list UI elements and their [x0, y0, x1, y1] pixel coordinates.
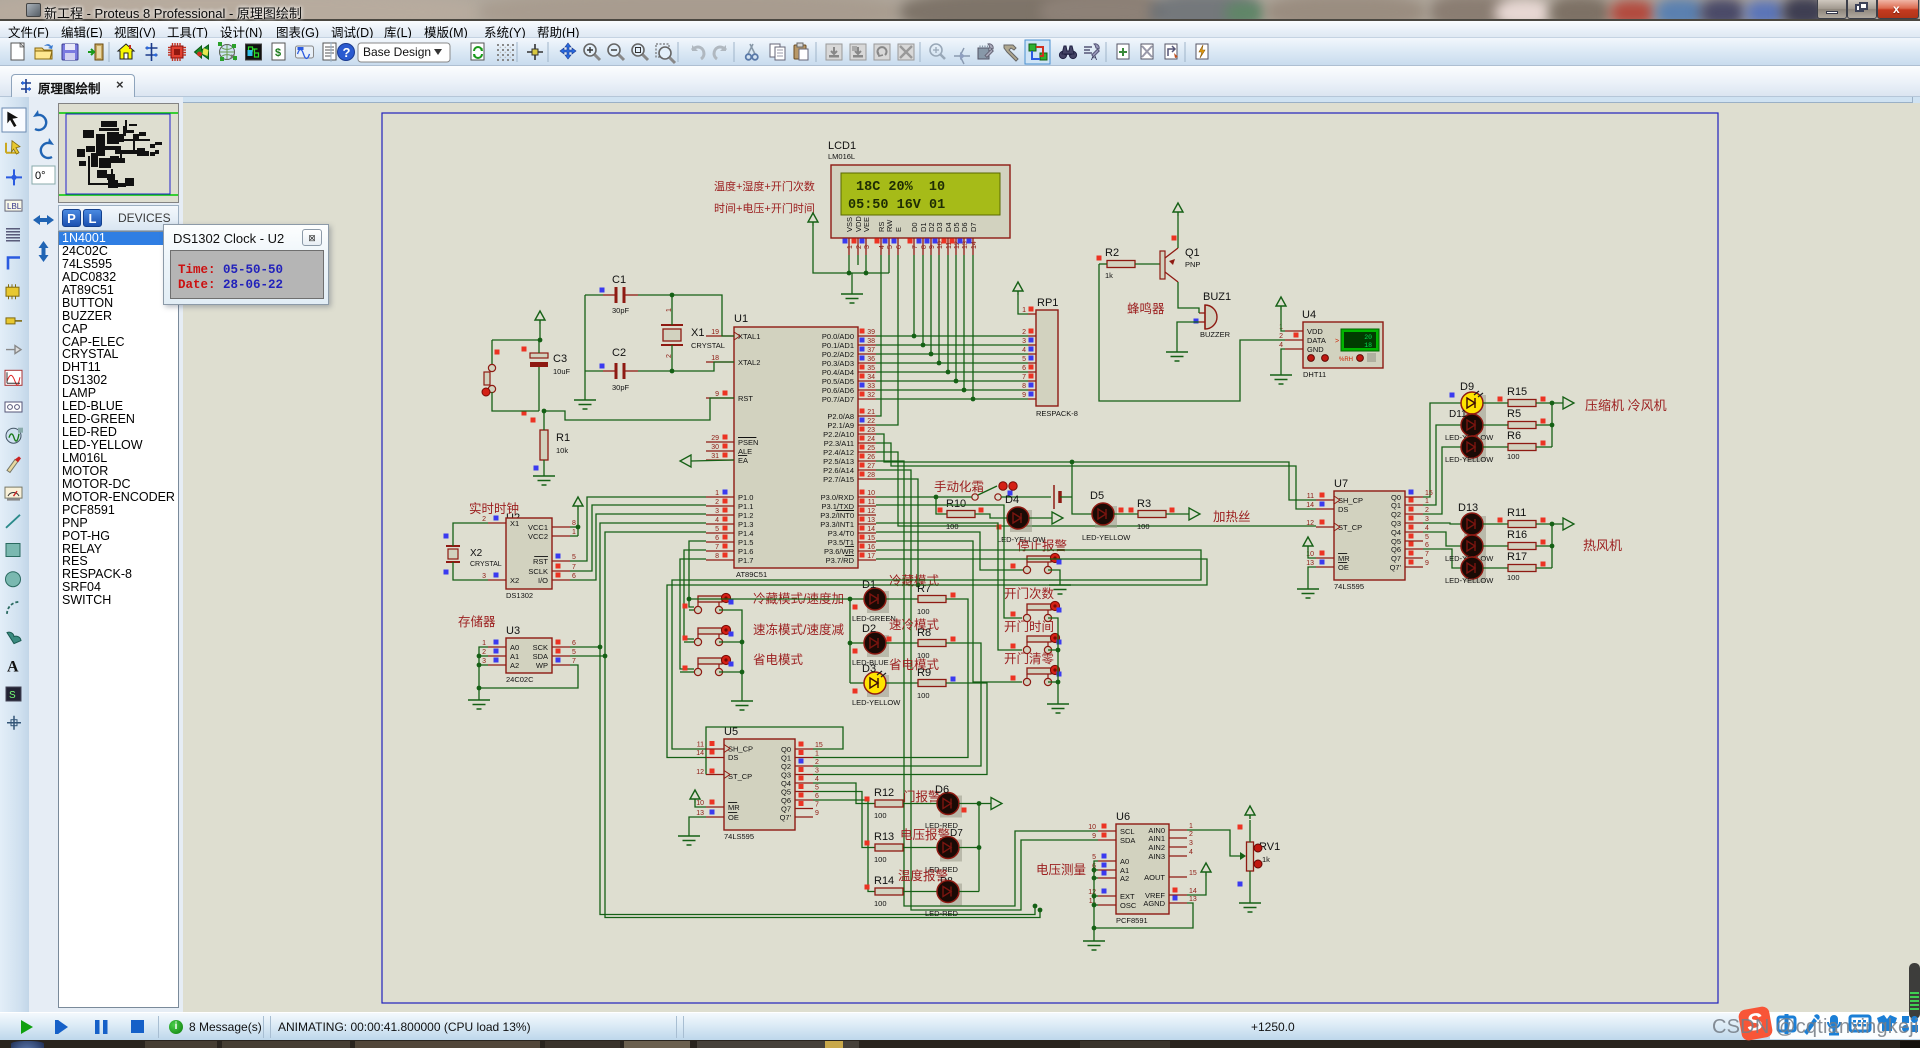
- wire LCD E to U1 pin22: [876, 255, 898, 425]
- svg-text:3: 3: [864, 245, 871, 249]
- svg-text:P1.5: P1.5: [738, 538, 753, 547]
- svg-text:P3.0/RXD: P3.0/RXD: [821, 493, 855, 502]
- svg-text:31: 31: [711, 453, 719, 460]
- svg-text:I/O: I/O: [538, 576, 548, 585]
- svg-text:Q7': Q7': [1390, 563, 1402, 572]
- svg-text:13: 13: [1189, 896, 1197, 903]
- svg-text:100: 100: [874, 855, 887, 864]
- svg-text:D6: D6: [960, 222, 969, 232]
- svg-text:A2: A2: [1120, 874, 1129, 883]
- wire D5 feed from bus: [1070, 460, 1092, 514]
- svg-text:8: 8: [1022, 383, 1026, 390]
- svg-text:P3.4/T0: P3.4/T0: [828, 529, 854, 538]
- svg-text:3: 3: [482, 658, 486, 665]
- svg-text:WP: WP: [536, 661, 548, 670]
- crystal X2: [444, 534, 502, 575]
- label buzzer annotation: [1127, 301, 1165, 316]
- svg-text:压缩机 冷风机: 压缩机 冷风机: [1585, 398, 1667, 413]
- label door annotation 2: [1004, 619, 1054, 634]
- label door annotation 3: [1004, 651, 1055, 666]
- svg-text:D5: D5: [1090, 490, 1104, 502]
- svg-text:AIN3: AIN3: [1148, 852, 1165, 861]
- svg-text:ST_CP: ST_CP: [728, 772, 752, 781]
- power arrow U6 VREF: [1187, 863, 1211, 895]
- svg-text:2: 2: [815, 759, 819, 766]
- svg-text:A: A: [7, 658, 19, 675]
- svg-text:2: 2: [1279, 333, 1283, 340]
- svg-text:P2.6/A14: P2.6/A14: [823, 466, 854, 475]
- svg-text:D7: D7: [969, 222, 978, 232]
- wire Q1 emitter to buzzer: [1178, 282, 1199, 313]
- ground U4: [1270, 375, 1292, 384]
- svg-text:13: 13: [867, 517, 875, 524]
- sensor U4 DHT11: [1279, 309, 1383, 379]
- svg-text:5: 5: [572, 649, 576, 656]
- svg-text:15: 15: [815, 742, 823, 749]
- wire U6 ground stem: [1092, 926, 1097, 941]
- wire LCD RS to U1 pin21: [876, 255, 881, 416]
- wire C1 net: [585, 293, 674, 298]
- svg-text:9: 9: [1092, 833, 1096, 840]
- svg-text:P3.7/RD: P3.7/RD: [826, 556, 855, 565]
- svg-text:3: 3: [1022, 338, 1026, 345]
- svg-text:P3.5/T1: P3.5/T1: [828, 538, 854, 547]
- svg-text:R3: R3: [1137, 498, 1151, 510]
- svg-text:18: 18: [1364, 342, 1372, 349]
- svg-text:U4: U4: [1302, 309, 1316, 321]
- svg-text:2: 2: [1022, 329, 1026, 336]
- svg-text:LED-YELLOW: LED-YELLOW: [1445, 455, 1494, 464]
- wire P1.2 to DS1302 IO: [570, 514, 706, 580]
- svg-text:RW: RW: [885, 219, 894, 232]
- svg-text:27: 27: [867, 463, 875, 470]
- svg-text:2: 2: [715, 499, 719, 506]
- wire D4 to terminal: [1029, 517, 1052, 519]
- svg-text:LBL: LBL: [7, 202, 22, 211]
- svg-text:R8: R8: [917, 627, 931, 639]
- label mode annotation 3: [753, 653, 804, 667]
- svg-text:4: 4: [1022, 347, 1026, 354]
- resistor R9 100: [886, 667, 956, 700]
- wire U5 OE ground: [689, 817, 706, 836]
- svg-text:16: 16: [867, 544, 875, 551]
- wire defrost to R10: [936, 497, 947, 514]
- svg-text:6: 6: [572, 640, 576, 647]
- terminal EA arrow: [680, 455, 734, 467]
- svg-text:C1: C1: [612, 274, 626, 286]
- svg-text:7: 7: [1022, 374, 1026, 381]
- svg-text:24C02C: 24C02C: [506, 675, 534, 684]
- svg-text:DS: DS: [1338, 505, 1348, 514]
- wire R1 to RST: [542, 398, 734, 430]
- svg-text:实时时钟: 实时时钟: [469, 501, 519, 516]
- wire P0.2 bus: [876, 353, 1028, 355]
- svg-text:VSS: VSS: [845, 217, 854, 232]
- svg-text:PCF8591: PCF8591: [1116, 916, 1148, 925]
- svg-text:3: 3: [1425, 516, 1429, 523]
- led D14 LED-YELLOW: [1445, 535, 1494, 563]
- svg-text:5: 5: [1425, 534, 1429, 541]
- svg-text:U5: U5: [724, 726, 738, 738]
- DS1302 popup: [163, 224, 329, 305]
- svg-text:R12: R12: [874, 787, 894, 799]
- svg-text:AGND: AGND: [1143, 899, 1165, 908]
- svg-text:停止报警: 停止报警: [1017, 538, 1067, 553]
- svg-text:18C 20% 10: 18C 20% 10: [856, 180, 945, 195]
- wire mode buttons left: [680, 610, 694, 672]
- svg-text:Q4: Q4: [1391, 528, 1401, 537]
- svg-text:OE: OE: [1338, 563, 1349, 572]
- svg-text:10k: 10k: [556, 446, 568, 455]
- wire door button feed 3: [876, 541, 1022, 682]
- svg-text:6: 6: [1425, 542, 1429, 549]
- svg-text:R6: R6: [1507, 430, 1521, 442]
- svg-text:7: 7: [572, 658, 576, 665]
- svg-text:P0.7/AD7: P0.7/AD7: [822, 395, 854, 404]
- svg-text:EA: EA: [738, 456, 748, 465]
- svg-text:CRYSTAL: CRYSTAL: [691, 341, 725, 350]
- wire R2 left to DATA net: [1099, 264, 1285, 401]
- svg-text:省电模式: 省电模式: [753, 653, 804, 667]
- svg-text:20: 20: [1364, 334, 1372, 341]
- capacitor C3 10uF: [522, 347, 571, 416]
- svg-text:MR: MR: [1338, 554, 1350, 563]
- led D15 LED-YELLOW: [1445, 557, 1494, 585]
- led D13 LED-YELLOW: [1458, 502, 1486, 538]
- wire U7 OE ground: [1308, 567, 1316, 589]
- label mode annotation 1: [753, 591, 844, 606]
- power arrow LCD: [808, 213, 889, 273]
- svg-text:A0: A0: [510, 643, 519, 652]
- label heater annotation: [1213, 510, 1251, 524]
- svg-text:4: 4: [879, 245, 886, 249]
- eeprom U3 24C02C: [482, 625, 576, 684]
- svg-text:1k: 1k: [1262, 855, 1270, 864]
- power arrow U4: [1276, 297, 1286, 331]
- svg-text:2: 2: [856, 245, 863, 249]
- svg-text:4: 4: [715, 517, 719, 524]
- svg-text:速冻模式/速度减: 速冻模式/速度减: [753, 622, 844, 637]
- svg-text:热风机: 热风机: [1583, 538, 1622, 553]
- wire P3.6 to U5 SH_CP: [672, 550, 1201, 749]
- svg-text:AOUT: AOUT: [1144, 873, 1165, 882]
- svg-text:1: 1: [1425, 498, 1429, 505]
- svg-text:3: 3: [1189, 840, 1193, 847]
- wire U7 Q2 to D11: [1423, 447, 1461, 514]
- svg-text:P0.3/AD3: P0.3/AD3: [822, 359, 854, 368]
- svg-text:冷藏模式: 冷藏模式: [889, 574, 940, 588]
- wire P2.6 vertical: [876, 470, 1098, 912]
- resistor R12 100: [865, 787, 904, 820]
- label hot fan annotation: [1583, 538, 1622, 553]
- wire D1 feed rail: [689, 597, 852, 683]
- crystal X1: [661, 308, 725, 358]
- svg-text:3: 3: [482, 573, 486, 580]
- svg-text:P1.0: P1.0: [738, 493, 753, 502]
- power arrow Q1: [1173, 203, 1183, 248]
- resistor R3 100: [1129, 498, 1175, 531]
- svg-text:D0: D0: [910, 222, 919, 232]
- svg-text:X1: X1: [510, 519, 519, 528]
- svg-text:12: 12: [696, 769, 704, 776]
- button mode 3: [683, 655, 734, 675]
- svg-text:10: 10: [867, 490, 875, 497]
- svg-text:SDA: SDA: [533, 652, 548, 661]
- wire U5 Q5 to R13: [813, 792, 875, 848]
- wire mode buttons rail: [719, 610, 744, 701]
- wire LCD D7 drop: [971, 255, 976, 401]
- svg-text:3: 3: [715, 508, 719, 515]
- led D7 LED-RED: [903, 837, 962, 875]
- rtc U2 DS1302: [482, 516, 576, 601]
- svg-text:省电模式: 省电模式: [889, 658, 940, 672]
- ground door buttons: [1047, 704, 1069, 713]
- svg-text:BUZZER: BUZZER: [1200, 330, 1231, 339]
- svg-text:1: 1: [572, 529, 576, 536]
- resistor R10 100: [946, 498, 984, 531]
- svg-text:18: 18: [711, 355, 719, 362]
- capacitor C2 30pF: [600, 347, 639, 392]
- svg-text:33: 33: [867, 383, 875, 390]
- button door 1: [1011, 601, 1062, 621]
- svg-text:11: 11: [697, 742, 704, 749]
- svg-text:7: 7: [1425, 551, 1429, 558]
- wire U3 SDA: [570, 655, 605, 657]
- svg-text:RESPACK-8: RESPACK-8: [1036, 409, 1078, 418]
- svg-text:D4: D4: [1005, 494, 1019, 506]
- svg-text:电压测量: 电压测量: [1036, 863, 1086, 877]
- schematic canvas: [183, 103, 1920, 1012]
- wire P2.2 to U7 SH_CP: [876, 434, 1316, 500]
- ground R1: [533, 476, 555, 485]
- wire C3 leads: [492, 340, 540, 411]
- svg-text:4: 4: [815, 776, 819, 783]
- svg-text:蜂鸣器: 蜂鸣器: [1127, 301, 1165, 316]
- svg-text:SCK: SCK: [533, 643, 548, 652]
- wire U7 Q4 to D14: [1423, 532, 1461, 546]
- svg-text:R15: R15: [1507, 386, 1527, 398]
- svg-text:23: 23: [867, 427, 875, 434]
- wire X1 top to XTAL1: [672, 295, 734, 336]
- svg-text:30: 30: [711, 444, 719, 451]
- power arrow RP1: [1013, 282, 1028, 314]
- wire R7 to U5 Q1: [813, 599, 968, 758]
- svg-text:EXT: EXT: [1120, 892, 1135, 901]
- svg-text:Q1: Q1: [1185, 247, 1200, 259]
- svg-text:22: 22: [867, 418, 875, 425]
- wire P0.0 bus: [876, 335, 1028, 337]
- svg-text:34: 34: [867, 374, 875, 381]
- svg-text:25: 25: [867, 445, 875, 452]
- wire P0.1 bus: [876, 344, 1028, 346]
- led D8 LED-RED: [903, 881, 962, 919]
- wire P2.7 vertical: [876, 479, 920, 587]
- led D2 LED-BLUE: [850, 623, 892, 667]
- svg-text:温度+湿度+开门次数: 温度+湿度+开门次数: [714, 179, 815, 193]
- svg-text:D11: D11: [1449, 409, 1467, 420]
- svg-text:P1.4: P1.4: [738, 529, 753, 538]
- svg-text:P1.2: P1.2: [738, 511, 753, 520]
- wire door button feed 1: [876, 505, 1022, 618]
- svg-text:Base Design: Base Design: [363, 45, 431, 59]
- svg-text:8: 8: [572, 520, 576, 527]
- label memory annotation: [458, 614, 496, 629]
- svg-text:24: 24: [867, 436, 875, 443]
- svg-text:U3: U3: [506, 625, 520, 637]
- svg-text:100: 100: [917, 607, 930, 616]
- wire P1.7 to mode button3: [680, 559, 706, 669]
- svg-text:X2: X2: [510, 576, 519, 585]
- svg-text:74LS595: 74LS595: [1334, 582, 1364, 591]
- resistor R7 100: [886, 583, 956, 616]
- button mode 1: [683, 593, 734, 613]
- power arrow DS1302: [570, 497, 583, 536]
- adc U6 PCF8591: [1088, 811, 1197, 925]
- svg-text:9: 9: [815, 810, 819, 817]
- svg-text:P2.7/A15: P2.7/A15: [823, 475, 854, 484]
- svg-text:加热丝: 加热丝: [1213, 510, 1251, 524]
- button reset SW: [482, 350, 500, 397]
- svg-text:1: 1: [1022, 307, 1026, 314]
- svg-text:OSC: OSC: [1120, 901, 1137, 910]
- svg-text:15: 15: [867, 535, 875, 542]
- svg-text:DS1302: DS1302: [506, 591, 533, 600]
- wire R10 to D4: [975, 514, 1007, 518]
- wire R8 to U5 Q2: [813, 643, 981, 766]
- svg-text:9: 9: [1425, 560, 1429, 567]
- wire P0.6 bus: [876, 389, 1028, 391]
- wire P1.4 SDA rail: [603, 532, 1040, 918]
- terminal compressor arrow: [1563, 397, 1574, 409]
- ground U3: [468, 688, 490, 709]
- wire LCD D2 drop: [929, 255, 934, 356]
- microcontroller U1 AT89C51: [706, 313, 876, 579]
- label voltage alarm annotation: [900, 827, 963, 842]
- terminal D4 arrow: [1052, 512, 1063, 524]
- svg-text:5: 5: [815, 785, 819, 792]
- buzzer BUZ1: [1194, 291, 1232, 339]
- wire door button feed 2: [876, 523, 1022, 650]
- svg-text:XTAL1: XTAL1: [738, 332, 760, 341]
- svg-text:P0.5/AD5: P0.5/AD5: [822, 377, 854, 386]
- svg-text:2: 2: [482, 516, 486, 523]
- svg-text:3: 3: [815, 768, 819, 775]
- sheet border: [382, 113, 1718, 1003]
- svg-text:5: 5: [715, 526, 719, 533]
- svg-text:6: 6: [815, 793, 819, 800]
- wire U7 Q0 to D9: [1423, 403, 1461, 497]
- power arrow reset: [535, 311, 545, 342]
- wire LCD D3 drop: [937, 255, 942, 365]
- svg-text:14: 14: [971, 241, 978, 249]
- resistor pack RP1 RESPACK-8: [1022, 297, 1078, 418]
- ground RV1: [1239, 903, 1261, 912]
- svg-text:5: 5: [887, 245, 894, 249]
- label door alarm annotation: [903, 789, 941, 804]
- svg-text:Q7': Q7': [780, 813, 792, 822]
- power arrow RV1: [1245, 806, 1255, 819]
- svg-text:VEE: VEE: [862, 217, 871, 232]
- svg-text:6: 6: [1022, 365, 1026, 372]
- svg-text:X1: X1: [691, 327, 704, 339]
- svg-text:P3.3/INT1: P3.3/INT1: [820, 520, 854, 529]
- wire P1.0 to DS1302 RST: [570, 497, 706, 561]
- ground U5: [678, 836, 700, 845]
- svg-text:PSEN: PSEN: [738, 438, 758, 447]
- wire door buttons rail: [1048, 618, 1060, 704]
- svg-text:存储器: 存储器: [458, 614, 496, 629]
- wire D5 R3: [1114, 513, 1189, 515]
- svg-text:P2.2/A10: P2.2/A10: [823, 430, 854, 439]
- svg-text:DHT11: DHT11: [1303, 370, 1326, 379]
- led D6 LED-RED: [903, 784, 967, 830]
- svg-text:X2: X2: [470, 548, 483, 559]
- ground U6: [1083, 941, 1105, 950]
- svg-text:7: 7: [815, 802, 819, 809]
- svg-text:30pF: 30pF: [612, 383, 630, 392]
- svg-text:P2.4/A12: P2.4/A12: [823, 448, 854, 457]
- svg-text:R11: R11: [1507, 507, 1526, 519]
- label door annotation 1: [1004, 586, 1055, 601]
- svg-text:SH_CP: SH_CP: [1338, 496, 1363, 505]
- svg-text:2: 2: [1189, 831, 1193, 838]
- wire LCD ground rail: [847, 255, 889, 294]
- LCD LCD1 LM016L: [828, 140, 1010, 255]
- svg-text:时间+电压+开门时间: 时间+电压+开门时间: [714, 201, 815, 215]
- svg-text:U1: U1: [734, 313, 748, 325]
- wire P1.5 to mode button1: [687, 541, 706, 607]
- led D1 LED-GREEN: [850, 579, 896, 623]
- svg-text:10: 10: [1088, 824, 1096, 831]
- svg-text:13: 13: [696, 810, 704, 817]
- battery B1: [1001, 485, 1072, 509]
- svg-text:A1: A1: [510, 652, 519, 661]
- svg-text:15: 15: [1425, 490, 1433, 497]
- svg-text:DS: DS: [728, 753, 738, 762]
- svg-text:P3.6/WR: P3.6/WR: [824, 547, 855, 556]
- label shi-jian annotation: [714, 201, 815, 215]
- svg-text:LED-YELLOW: LED-YELLOW: [852, 698, 901, 707]
- svg-text:E: E: [894, 227, 903, 232]
- label stop alarm annotation: [1017, 538, 1067, 553]
- svg-text:39: 39: [867, 329, 875, 336]
- wire buzzer to ground: [1177, 322, 1199, 352]
- svg-text:P2.5/A13: P2.5/A13: [823, 457, 854, 466]
- svg-text:0°: 0°: [35, 170, 46, 182]
- svg-text:AIN1: AIN1: [1148, 834, 1165, 843]
- svg-text:SCLK: SCLK: [528, 567, 548, 576]
- led D5 LED-YELLOW: [1082, 490, 1131, 542]
- svg-text:P2.1/A9: P2.1/A9: [827, 421, 854, 430]
- label quick mode annotation: [889, 618, 940, 632]
- svg-text:D6: D6: [935, 784, 949, 796]
- label cold mode annotation: [889, 574, 940, 588]
- svg-text:100: 100: [874, 811, 887, 820]
- svg-text:VCC1: VCC1: [528, 523, 548, 532]
- led D9 LED-YELLOW lit: [1450, 381, 1487, 417]
- wire reset button: [492, 340, 539, 411]
- svg-text:15: 15: [1189, 870, 1197, 877]
- svg-text:05:50 16V 01: 05:50 16V 01: [848, 198, 945, 213]
- wire U6 address rail: [1092, 861, 1193, 928]
- label temp alarm annotation: [898, 868, 953, 887]
- svg-text:100: 100: [917, 691, 930, 700]
- svg-text:GND: GND: [1307, 345, 1324, 354]
- svg-text:BUZ1: BUZ1: [1203, 291, 1231, 303]
- wire U7 Q6 to D15: [1423, 549, 1461, 568]
- label compressor annotation: [1585, 398, 1667, 413]
- svg-text:VCC2: VCC2: [528, 532, 548, 541]
